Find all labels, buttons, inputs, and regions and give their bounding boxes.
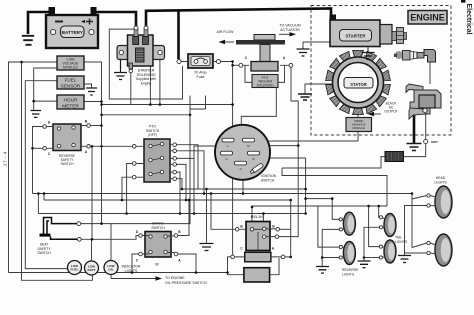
label black ac output [368, 102, 398, 117]
wire reverse B to trunk [89, 125, 102, 127]
wire vac A trunk to relay [279, 67, 299, 236]
tail light 1 [379, 214, 396, 237]
ground reverse lights [316, 267, 329, 274]
svg-text:FUEL: FUEL [70, 268, 78, 272]
svg-text:GMT: GMT [431, 140, 438, 144]
wire ignition top riser to vacuum solenoid [241, 85, 276, 126]
svg-text:LIGHTS: LIGHTS [395, 240, 408, 244]
junction (252,207) [251, 206, 254, 209]
junction (378.7,206) [377, 205, 380, 208]
wire solenoid bottom drop 2 [149, 66, 151, 105]
svg-text:BATTERY: BATTERY [62, 30, 83, 35]
junction (182,189) [181, 188, 184, 191]
junction (263.4,213.5) [262, 212, 265, 215]
svg-text:Engine: Engine [141, 81, 152, 85]
head light 2 [427, 234, 452, 266]
starter solenoid [117, 26, 165, 85]
wire reverse lamp1 feed [332, 199, 339, 220]
wire solenoid output bus to starter [146, 9, 331, 28]
wire PTO p5 [175, 172, 180, 213]
wire PTO p1 [175, 145, 198, 189]
wire fuel sensor left trunk to low fuel lamp [25, 81, 67, 269]
svg-text:17 - 4: 17 - 4 [3, 151, 8, 166]
svg-text:LIGHTS: LIGHTS [125, 269, 138, 273]
wire relay box3 right loop [270, 258, 279, 275]
junction (101.5,223.6) [100, 222, 103, 225]
engine label [408, 11, 447, 25]
junction (412,193.5) [411, 192, 414, 195]
wire tail lamps ground stem [364, 227, 380, 260]
junction (204,193.5) [203, 192, 206, 195]
wire relay right trunk [290, 200, 292, 257]
svg-text:AIR FLOW: AIR FLOW [217, 30, 235, 34]
svg-text:INDICATOR: INDICATOR [122, 265, 141, 269]
indicator lamp low oil [104, 261, 118, 275]
svg-text:TO VACUUM: TO VACUUM [279, 24, 300, 28]
wire battery positive bus to solenoid [95, 12, 136, 27]
wire hour meter right [84, 101, 102, 103]
wire spark module return y141 [269, 132, 358, 142]
starter motor [330, 15, 407, 47]
wire PTO q2 [127, 164, 135, 214]
junction (132,272.5) [131, 271, 134, 274]
ground solenoid [114, 60, 127, 80]
svg-text:Fuse: Fuse [197, 75, 205, 79]
svg-text:20 Amp: 20 Amp [194, 71, 206, 75]
svg-text:ENGINE: ENGINE [410, 12, 445, 22]
stator [326, 50, 391, 114]
svg-text:SOLENOID: SOLENOID [256, 83, 274, 87]
junction (92,146.3) [91, 145, 94, 148]
wire spark plug lead [429, 63, 431, 85]
bus B4 y193.5 to head lights [33, 194, 413, 248]
svg-text:METER: METER [62, 103, 79, 109]
svg-text:RELAY: RELAY [251, 214, 264, 219]
wire vacuum coil loop [245, 65, 285, 82]
wire PTO p2 [175, 151, 204, 194]
relay [231, 214, 285, 282]
junction (243,193.5) [242, 192, 245, 195]
ground stator left [298, 94, 312, 100]
junction (194,213.5) [193, 212, 196, 215]
svg-text:STARTER: STARTER [346, 34, 367, 39]
wire trunk x305 [305, 158, 307, 214]
GMT terminal [424, 139, 438, 144]
svg-text:SWITCH: SWITCH [60, 162, 74, 166]
low voltage module [57, 56, 84, 70]
ground head lights [398, 256, 411, 263]
wire module left to trunk [9, 62, 58, 273]
junction (101.5,114.8) [100, 114, 103, 117]
junction (322.2,257.5) [321, 256, 324, 259]
bus B5 y200 [44, 199, 291, 201]
svg-text:OIL: OIL [108, 268, 113, 272]
svg-text:REVERSE: REVERSE [342, 268, 359, 272]
wire diode right to GMT [404, 144, 426, 157]
wire ignition left trunk [194, 146, 216, 214]
junction (33.7,101.1) [32, 100, 35, 103]
junction (290.7,256.9) [289, 256, 292, 259]
junction (101.5,125.5) [100, 124, 103, 127]
svg-text:A: A [225, 157, 227, 161]
wire head lamps ground [405, 206, 427, 256]
junction (180,213.5) [179, 212, 182, 215]
svg-text:OIL PRESSURE SWITCH: OIL PRESSURE SWITCH [165, 281, 207, 285]
junction (227.5,272.5) [226, 271, 229, 274]
junction (190,114.8) [189, 114, 192, 117]
svg-text:S: S [239, 167, 241, 171]
svg-text:SWITCH: SWITCH [37, 251, 51, 255]
svg-text:LIGHTS: LIGHTS [434, 181, 447, 185]
ground hour meter trunk [31, 111, 42, 118]
junction (298.2,145.6) [297, 144, 300, 147]
bus B8 y272.5 [9, 272, 228, 274]
svg-text:STATOR: STATOR [350, 82, 367, 87]
wire relay box2 right link [285, 256, 291, 258]
wire tail lamp2 ground link [364, 257, 380, 259]
junction (332.2,198.6) [331, 197, 334, 200]
junction (364,257.5) [363, 256, 366, 259]
wire stator to module [357, 109, 359, 118]
wire fuse right to V1 trunk [221, 62, 233, 256]
wire brake C to B8 [132, 254, 139, 273]
junction (38.4,193.5) [37, 192, 40, 195]
wire spur y198.6 [306, 198, 333, 200]
junction (32.5,148.3) [31, 147, 34, 150]
junction (305.6,213.5) [304, 212, 307, 215]
svg-text:Electrical: Electrical [465, 4, 472, 35]
bus B6 y206 [252, 205, 387, 207]
wire solenoid right ear drop [159, 60, 161, 105]
junction (44,193.5) [43, 192, 46, 195]
reverse light 2 [339, 242, 359, 277]
junction (101.5,101.5) [100, 100, 103, 103]
junction (196,272.5) [195, 271, 198, 274]
junction (206.5,189) [205, 188, 208, 191]
wire coil ground thick [413, 112, 416, 143]
label to engine oil pressure switch [111, 276, 207, 285]
junction (150.4,104.5) [149, 103, 152, 106]
svg-text:BATT: BATT [87, 268, 95, 272]
wire seat lower to brake D [79, 236, 140, 240]
wire brake A to B8 [178, 254, 196, 273]
wire vac C stub [233, 64, 239, 66]
wire relay box2 left loop [228, 257, 244, 275]
wire B5 left riser [43, 194, 45, 201]
indicator lamp low fuel [68, 261, 82, 275]
wire hour meter left [34, 100, 57, 102]
wire relay top riser1 [251, 207, 253, 222]
ground battery [22, 36, 34, 45]
wire bus drop to fuse left [177, 10, 180, 59]
diode block [385, 152, 404, 162]
head light 1 [427, 176, 452, 218]
svg-text:ACTUATOR: ACTUATOR [280, 28, 300, 32]
spark advance module [346, 118, 372, 132]
wire coil to GMT terminal [425, 114, 427, 139]
engine dashed enclosure [311, 6, 451, 136]
wire diode to y168 run [282, 157, 385, 168]
page margin text Electrical [461, 0, 466, 3]
indicator lamp low batt [85, 261, 99, 275]
ground engine coil [407, 144, 422, 151]
wire ignition right2 [269, 157, 306, 159]
junction (159.9,104.5) [159, 103, 162, 106]
label indicator lights [122, 265, 141, 274]
ground starter [362, 48, 375, 60]
wire tail lamp1 feed [379, 206, 381, 217]
svg-text:OUTPUT: OUTPUT [384, 110, 398, 114]
wire B7 left riser [37, 194, 39, 214]
pto vacuum solenoid [217, 24, 301, 88]
fuel sensor [57, 76, 84, 89]
svg-text:SWITCH: SWITCH [261, 179, 275, 183]
ignition coil assembly [406, 84, 441, 119]
brake switch [136, 222, 182, 267]
wire reverse A to PTO pin [89, 145, 135, 147]
ground fuel sensor [86, 88, 97, 95]
wire reverse lamp2 ground link [322, 257, 339, 259]
wire stator left to ground [305, 84, 333, 94]
wire lamp LB riser [91, 239, 93, 261]
junction (305.6,198.6) [304, 197, 307, 200]
svg-text:TO ENGINE: TO ENGINE [165, 276, 185, 280]
wire loop under solenoid text [109, 29, 182, 99]
junction (122,200) [121, 199, 124, 202]
wire ignition bottom riser [242, 180, 244, 194]
ignition switch [215, 125, 277, 183]
bus B3 y189 [182, 188, 306, 190]
wire module right to trunk101 [84, 62, 102, 224]
PTO switch [132, 125, 176, 183]
battery [46, 7, 98, 48]
svg-text:FUEL: FUEL [65, 78, 77, 83]
wire battery negative to ground [28, 12, 52, 34]
wire lamp LO riser [110, 224, 112, 261]
wire trunk x92 [91, 146, 93, 239]
svg-text:HOUR: HOUR [63, 97, 78, 103]
svg-text:SWITCH: SWITCH [151, 226, 165, 230]
wire trunk to low batt lamp bottom [22, 62, 93, 280]
wire module second lead [34, 68, 57, 110]
reverse safety switch [43, 120, 91, 167]
spark plug [394, 50, 436, 63]
junction (232.6,61.5) [231, 60, 234, 63]
bus B7 y213.5 [38, 213, 305, 215]
wire B6 riser to y175.5 [282, 168, 387, 206]
wire PTO p6 [175, 179, 182, 189]
junction (101.5,146.3) [100, 145, 103, 148]
svg-text:MODULE: MODULE [63, 66, 79, 70]
wire tail lamp2 feed [369, 206, 381, 247]
junction (305.6,189) [304, 188, 307, 191]
bus B2 y114.8 seat loop [102, 114, 191, 116]
wire ignition right to V2 [269, 145, 298, 147]
svg-text:SENSOR: SENSOR [61, 84, 81, 89]
wire trunk x190 [79, 96, 190, 224]
hour meter [57, 95, 84, 109]
wire PTO q3 riser to B5 [122, 177, 134, 200]
bus B1 y104.5 [102, 104, 233, 106]
wire brake B riser [178, 200, 189, 236]
junction (368.6,206) [367, 205, 370, 208]
junction (92,239.3) [91, 238, 94, 241]
wire relay right pin [280, 228, 291, 230]
tail light 2 [379, 236, 408, 264]
junction (290.7,200) [289, 199, 292, 202]
svg-text:TAIL: TAIL [395, 236, 402, 240]
junction (21.5,62) [20, 61, 23, 64]
svg-text:MODULE: MODULE [353, 126, 365, 130]
junction (232.6,104.5) [231, 103, 234, 106]
junction (232.6,65.3) [231, 64, 234, 67]
wire lamp LO bottom to arrow [110, 275, 112, 279]
ground brake right [200, 244, 214, 251]
wire reverse lamps ground stem [322, 229, 339, 266]
wire relay left pin riser [211, 194, 235, 230]
wire solenoid bottom terminal drop [130, 73, 132, 105]
wire PTO p4 [175, 164, 186, 200]
wire starter ground link [303, 42, 330, 49]
svg-text:HEAD: HEAD [436, 176, 446, 180]
wire reverse D riser [33, 127, 45, 194]
svg-text:B: B [252, 157, 254, 161]
ground tail lights [358, 261, 371, 268]
seat safety switch [37, 218, 81, 256]
junction (211,193.5) [210, 192, 213, 195]
wire head lamp2 ground link [405, 252, 427, 254]
wire reverse C to riser [33, 147, 45, 149]
junction (101.5,104.5) [100, 103, 103, 106]
wire reverse lamp2 feed [318, 206, 340, 247]
svg-text:(OFF): (OFF) [148, 133, 157, 137]
wire PTO p3 [175, 157, 194, 159]
wire elbow nest [190, 96, 206, 109]
wire G5 stem [206, 189, 208, 243]
junction (126.6,213.5) [125, 212, 128, 215]
reverse light 1 [339, 212, 355, 235]
junction (189,200) [188, 199, 191, 202]
svg-text:S0: S0 [155, 263, 159, 267]
svg-text:IGNITION: IGNITION [261, 174, 277, 178]
wire head lamp diag feeds [412, 196, 427, 248]
junction (186,200) [185, 199, 188, 202]
svg-text:BRAKE: BRAKE [152, 222, 164, 226]
ground vacuum upper [297, 49, 310, 56]
wire fuel sensor right to ground [84, 84, 92, 88]
svg-text:LIGHTS: LIGHTS [342, 273, 355, 277]
fuse 20 amp [177, 54, 221, 79]
wire relay top riser2 [262, 214, 264, 223]
